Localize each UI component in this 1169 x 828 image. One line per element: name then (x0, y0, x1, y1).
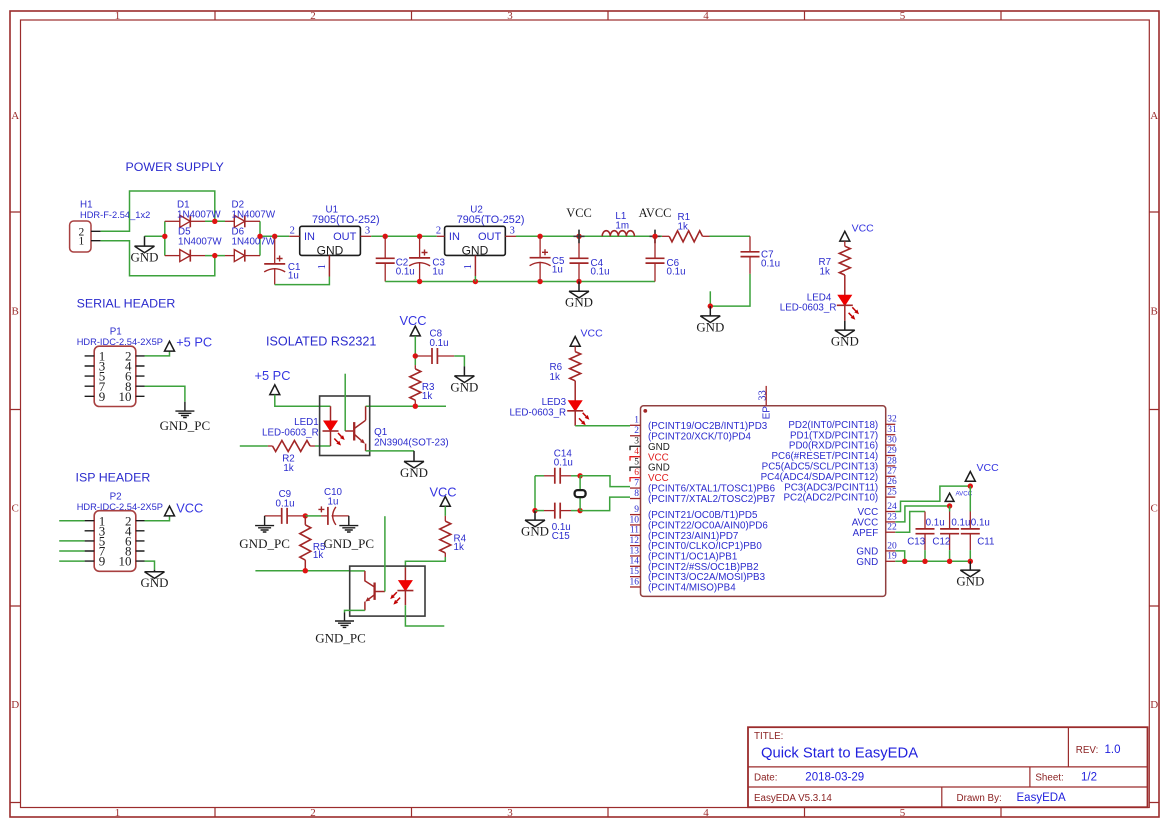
wire ground bus (385, 281, 655, 283)
wire MCU pin20 to bus (895, 551, 904, 561)
svg-text:H1: H1 (80, 200, 93, 211)
svg-text:2N3904(SOT-23): 2N3904(SOT-23) (374, 438, 449, 449)
capacitor C6 (654, 236, 656, 258)
svg-text:A: A (11, 110, 19, 122)
svg-text:GND_PC: GND_PC (239, 536, 290, 551)
svg-text:LED-0603_R: LED-0603_R (262, 427, 319, 438)
junction AVCC/C6 top (652, 234, 657, 239)
svg-text:A: A (1150, 110, 1158, 122)
svg-text:1k: 1k (820, 267, 830, 278)
svg-text:ISOLATED RS2321: ISOLATED RS2321 (266, 334, 376, 348)
svg-text:GND: GND (856, 547, 878, 558)
junction C3 top (417, 234, 422, 239)
ground GND below LED4 (844, 321, 846, 330)
svg-text:C15: C15 (552, 531, 571, 542)
wire R4 to opto2 LED (405, 557, 445, 568)
svg-text:LED1: LED1 (294, 417, 319, 428)
svg-text:(PCINT20/XCK/T0)PD4: (PCINT20/XCK/T0)PD4 (648, 431, 751, 442)
diode D6 (225, 255, 234, 257)
pin 11 of MCU (630, 534, 641, 536)
svg-text:10: 10 (630, 515, 640, 525)
capacitor C9 (265, 515, 282, 517)
pin 2 of MCU (630, 435, 641, 437)
svg-text:GND: GND (956, 575, 984, 589)
wire P2 pin1 (59, 520, 84, 522)
pin 24 of MCU (886, 511, 896, 513)
svg-text:20: 20 (887, 541, 897, 551)
junction bridge right mid (257, 234, 262, 239)
net label VCC on rail (574, 230, 585, 244)
wire bridge mid to GND (145, 235, 165, 237)
junction bridge bottom mid (212, 253, 217, 258)
optocoupler U4 body (350, 566, 425, 616)
pin 2 of U2 (437, 235, 445, 237)
svg-text:6: 6 (634, 468, 639, 478)
capacitor C5 (539, 236, 541, 257)
svg-text:GND: GND (521, 525, 549, 539)
pin 1 of U2 (474, 255, 476, 276)
svg-text:4: 4 (703, 10, 709, 22)
wire bridge out to U1 IN (260, 235, 289, 237)
svg-text:1: 1 (634, 416, 639, 426)
svg-text:11: 11 (630, 526, 639, 536)
svg-text:(PCINT23/AIN1)PD7: (PCINT23/AIN1)PD7 (648, 531, 738, 542)
pin 9 of MCU (630, 514, 641, 516)
svg-text:2: 2 (310, 10, 316, 22)
svg-text:3: 3 (634, 437, 639, 447)
wire R2 left stub (240, 445, 268, 447)
svg-text:1u: 1u (432, 266, 443, 277)
junction C3 bottom (417, 279, 422, 284)
svg-text:29: 29 (887, 446, 897, 456)
svg-text:Quick Start to EasyEDA: Quick Start to EasyEDA (761, 746, 918, 762)
pin 12 of MCU (630, 545, 641, 547)
pin 3 of U2 (505, 235, 516, 237)
svg-text:15: 15 (630, 567, 640, 577)
svg-text:0.1u: 0.1u (971, 517, 990, 528)
diode D2 (225, 220, 234, 222)
svg-text:PD2(INT0/PCINT18): PD2(INT0/PCINT18) (788, 420, 878, 431)
svg-text:(PCINT7/XTAL2/TOSC2)PB7: (PCINT7/XTAL2/TOSC2)PB7 (648, 494, 775, 505)
wire D5 to D6 (205, 255, 225, 257)
power flag VCC above R4 (440, 497, 450, 507)
wire opto1 collector to R3 foot (366, 405, 446, 407)
ground GND_PC below C10 (339, 516, 358, 532)
svg-text:PD0(RXD/PCINT16): PD0(RXD/PCINT16) (789, 441, 878, 452)
svg-text:0.1u: 0.1u (554, 458, 573, 469)
wire C14 to node (571, 475, 580, 477)
junction bus C12 (947, 559, 952, 564)
svg-text:0.1u: 0.1u (926, 517, 945, 528)
connector P2 (94, 511, 136, 572)
wire U1 OUT to C2 (371, 235, 437, 237)
svg-text:C: C (1151, 503, 1158, 515)
wire U2 GND pin to bus (474, 276, 476, 282)
svg-text:EasyEDA V5.3.14: EasyEDA V5.3.14 (754, 793, 832, 804)
svg-text:1N4007W: 1N4007W (178, 237, 222, 248)
svg-text:PC3(ADC3/PCINT11): PC3(ADC3/PCINT11) (784, 482, 878, 493)
svg-text:9: 9 (99, 389, 106, 404)
svg-text:SERIAL HEADER: SERIAL HEADER (77, 297, 176, 311)
svg-text:25: 25 (887, 488, 897, 498)
svg-text:3: 3 (507, 10, 513, 22)
svg-text:GND_PC: GND_PC (160, 418, 211, 433)
svg-text:GND: GND (856, 557, 878, 568)
wire H1 pin2 to bridge top (101, 191, 215, 231)
resistor R2 (273, 441, 311, 452)
svg-text:1u: 1u (328, 497, 339, 508)
svg-text:7905(TO-252): 7905(TO-252) (457, 214, 525, 226)
junction R5 foot (303, 568, 308, 573)
svg-text:1: 1 (115, 807, 121, 819)
capacitor C8 (415, 355, 432, 357)
svg-text:1: 1 (79, 236, 85, 248)
svg-text:7905(TO-252): 7905(TO-252) (312, 214, 380, 226)
svg-text:GND: GND (831, 335, 859, 349)
pin 15 of MCU (630, 576, 641, 578)
wire VCC to R4 (444, 506, 446, 516)
svg-text:Date:: Date: (754, 772, 777, 783)
pin 2 of U1 (289, 235, 299, 237)
svg-text:3: 3 (365, 226, 370, 237)
svg-text:0.1u: 0.1u (591, 267, 610, 278)
capacitor C1 (274, 236, 276, 264)
wire dangling stub into opto1 (344, 374, 346, 431)
svg-text:LED-0603_R: LED-0603_R (509, 407, 566, 418)
svg-text:1k: 1k (454, 542, 464, 553)
resistor R7 (844, 241, 846, 246)
capacitor C13 (924, 512, 926, 529)
svg-text:14: 14 (630, 557, 640, 567)
svg-text:GND: GND (565, 296, 593, 310)
svg-text:5: 5 (900, 807, 906, 819)
svg-text:GND: GND (317, 244, 344, 258)
svg-text:ISP HEADER: ISP HEADER (76, 471, 151, 485)
wire C7 to GND (710, 274, 750, 306)
wire VCC to C8/R3 node (414, 336, 416, 365)
wire +5 PC to LED1 anode (275, 395, 331, 407)
wire crystal left side (534, 476, 536, 511)
svg-text:10: 10 (119, 389, 132, 404)
svg-text:27: 27 (887, 467, 897, 477)
svg-text:7: 7 (634, 478, 639, 488)
pin 4 of MCU (630, 457, 641, 461)
svg-text:30: 30 (887, 436, 897, 446)
svg-text:13: 13 (630, 546, 640, 556)
connector H1 (70, 221, 91, 252)
ground GND at crystal (525, 511, 545, 527)
power flag VCC above R3 (410, 326, 420, 336)
svg-text:4: 4 (634, 447, 639, 457)
regulator U2 body (445, 226, 506, 255)
pin 10 of MCU (630, 524, 641, 526)
svg-text:B: B (12, 306, 19, 318)
svg-text:2: 2 (290, 226, 295, 237)
svg-text:1u: 1u (552, 265, 563, 276)
wire stub above C7 GND (709, 291, 711, 306)
wire dangling stub into opto2 (384, 516, 386, 591)
svg-text:12: 12 (630, 536, 640, 546)
junction C4 top (576, 234, 581, 239)
svg-text:AVCC: AVCC (639, 206, 672, 220)
pin 16 of MCU (630, 586, 641, 588)
LED LED1 inside opto (330, 406, 332, 421)
pin 5 of MCU (630, 467, 641, 471)
svg-text:1.0: 1.0 (1105, 744, 1121, 756)
pin 7 of MCU (630, 487, 641, 489)
pin 14 of MCU (630, 565, 641, 567)
ground GND below opto1 (404, 451, 424, 468)
wire P2 pin9 (59, 560, 84, 562)
LED inside opto2 (404, 568, 406, 581)
svg-text:1u: 1u (288, 270, 299, 281)
capacitor C11 (969, 486, 971, 511)
ground GND below C7 (700, 306, 720, 322)
junction C5 bottom (537, 279, 542, 284)
capacitor C7 (749, 236, 751, 252)
junction bridge top mid (212, 219, 217, 224)
wire XTAL1 to MCU pin7 (580, 476, 630, 487)
pin 6 of MCU (630, 478, 641, 482)
svg-text:1N4007W: 1N4007W (232, 210, 276, 221)
svg-text:1: 1 (115, 10, 121, 22)
wire P1 pin8 to GND_PC (145, 386, 185, 402)
pin 28 of MCU (886, 465, 896, 467)
optocoupler U3 body (320, 396, 370, 456)
pin 33 EP of MCU (765, 386, 767, 406)
wire D1 to D2 (205, 220, 225, 222)
svg-text:VCC: VCC (852, 222, 875, 234)
capacitor C14 (544, 475, 555, 477)
svg-text:HDR-IDC-2.54-2X5P: HDR-IDC-2.54-2X5P (77, 337, 163, 347)
pin 20 of MCU (886, 550, 896, 552)
resistor R1 (669, 231, 702, 242)
svg-text:VCC: VCC (176, 501, 203, 516)
ground GND_PC below C9 (255, 516, 274, 532)
svg-text:GND: GND (131, 251, 159, 265)
pin 22 of MCU (886, 531, 896, 533)
svg-text:LED3: LED3 (542, 397, 567, 408)
LED LED3 (569, 401, 582, 411)
pin 3 of MCU (630, 446, 641, 450)
svg-text:0.1u: 0.1u (276, 498, 295, 509)
capacitor C2 (384, 236, 386, 258)
svg-text:GND: GND (141, 576, 169, 590)
transistor Q1 (345, 430, 353, 432)
crystal Y1 (579, 476, 581, 490)
svg-text:APEF: APEF (853, 528, 879, 539)
junction C2 top (383, 234, 388, 239)
svg-text:VCC: VCC (581, 328, 604, 340)
pin 23 of MCU (886, 521, 896, 523)
svg-text:1m: 1m (615, 221, 629, 232)
svg-text:VCC: VCC (399, 313, 426, 328)
pin 30 of MCU (886, 444, 896, 446)
svg-text:GND_PC: GND_PC (315, 631, 366, 646)
svg-text:Q1: Q1 (374, 427, 387, 438)
svg-text:PC5(ADC5/SCL/PCINT13): PC5(ADC5/SCL/PCINT13) (762, 462, 879, 473)
pin 13 of MCU (630, 555, 641, 557)
ground GND_PC below P1 (175, 402, 194, 418)
capacitor C12 (949, 506, 951, 512)
svg-text:LED-0603_R: LED-0603_R (780, 302, 837, 313)
svg-text:22: 22 (887, 523, 897, 533)
power flag +5 PC at opto (270, 385, 280, 395)
svg-text:C: C (12, 503, 19, 515)
wire opto2 emitter to GND_PC (345, 610, 365, 612)
svg-text:0.1u: 0.1u (761, 259, 780, 270)
svg-text:P1: P1 (110, 326, 122, 337)
wire Q1 emitter to GND (366, 450, 414, 452)
svg-text:(PCINT3/OC2A/MOSI)PB3: (PCINT3/OC2A/MOSI)PB3 (648, 572, 766, 583)
wire bridge right side (259, 221, 261, 255)
svg-text:OUT: OUT (333, 231, 357, 243)
capacitor C4 (578, 236, 580, 258)
svg-text:9: 9 (634, 505, 639, 515)
wire XTAL2 to MCU pin8 (580, 497, 630, 511)
svg-text:2: 2 (634, 426, 639, 436)
ground GND at bridge (135, 236, 155, 252)
pin 19 of MCU (886, 560, 896, 562)
svg-text:TITLE:: TITLE: (754, 731, 783, 742)
svg-text:HDR-F-2.54_1x2: HDR-F-2.54_1x2 (80, 210, 150, 220)
pin 32 of MCU (886, 423, 896, 425)
svg-text:GND: GND (696, 320, 724, 334)
svg-text:1k: 1k (313, 550, 323, 561)
junction VCC right (968, 483, 973, 488)
MCU pin1 marker dot (643, 409, 647, 413)
junction bus C11 (968, 559, 973, 564)
svg-text:1k: 1k (678, 222, 688, 233)
svg-text:PC6(#RESET/PCINT14): PC6(#RESET/PCINT14) (771, 451, 878, 462)
power flag VCC at P2 (165, 506, 175, 516)
svg-text:0.1u: 0.1u (951, 517, 970, 528)
wire MCU pin22 to C13 (895, 512, 925, 533)
svg-text:31: 31 (887, 425, 897, 435)
svg-text:(PCINT4/MISO)PB4: (PCINT4/MISO)PB4 (648, 583, 736, 594)
svg-text:1: 1 (463, 264, 474, 269)
pin 27 of MCU (886, 475, 896, 477)
svg-text:REV:: REV: (1076, 745, 1099, 756)
svg-text:GND_PC: GND_PC (324, 536, 375, 551)
svg-text:19: 19 (887, 552, 897, 562)
wire cap bottom bus (895, 560, 970, 562)
svg-text:VCC: VCC (429, 485, 456, 500)
pin 8 of MCU (630, 498, 641, 500)
svg-text:(PCINT6/XTAL1/TOSC1)PB6: (PCINT6/XTAL1/TOSC1)PB6 (648, 484, 776, 495)
svg-text:PC4(ADC4/SDA/PCINT12): PC4(ADC4/SDA/PCINT12) (761, 472, 879, 483)
junction AVCC right (947, 503, 952, 508)
junction U2 GND bus (473, 279, 478, 284)
junction XTAL bottom (577, 508, 582, 513)
svg-text:D: D (11, 699, 19, 711)
pin 1 of U1 (328, 255, 330, 276)
junction C7 GND (708, 303, 713, 308)
wire U2 OUT rail (516, 235, 662, 237)
svg-text:GND: GND (648, 463, 670, 474)
wire C8 to GND (454, 356, 464, 366)
wire MCU pin24 to VCC (895, 486, 970, 511)
svg-text:9: 9 (99, 554, 106, 569)
svg-text:VCC: VCC (977, 462, 1000, 474)
junction R3 foot (413, 404, 418, 409)
wire crystal left bottom (535, 510, 544, 512)
ground GND below C4 (569, 282, 589, 298)
svg-text:1N4007W: 1N4007W (232, 237, 276, 248)
wire P1 pin2 to +5 PC (145, 351, 170, 356)
svg-text:4: 4 (703, 807, 709, 819)
svg-text:GND: GND (648, 442, 670, 453)
svg-text:Drawn By:: Drawn By: (957, 793, 1002, 804)
wire C1 to U1 GND pin (275, 277, 330, 285)
ground GND below C8 (454, 366, 474, 382)
svg-text:+5 PC: +5 PC (255, 368, 291, 383)
svg-text:GND: GND (450, 380, 478, 394)
resistor R4 (444, 516, 446, 521)
svg-text:1: 1 (317, 264, 328, 269)
svg-text:D: D (1150, 699, 1158, 711)
power flag AVCC right (945, 493, 954, 501)
svg-text:(PCINT22/OC0A/AIN0)PD6: (PCINT22/OC0A/AIN0)PD6 (648, 521, 768, 532)
capacitor C15 (544, 510, 555, 512)
svg-text:8: 8 (634, 489, 639, 499)
svg-text:23: 23 (887, 512, 897, 522)
svg-text:1k: 1k (550, 372, 560, 383)
wire crystal left top (535, 475, 544, 477)
svg-text:C12: C12 (932, 537, 950, 548)
capacitor C10 (327, 507, 329, 525)
svg-text:C13: C13 (907, 537, 926, 548)
svg-text:Sheet:: Sheet: (1035, 772, 1063, 783)
junction C1 tap (272, 234, 277, 239)
svg-text:3: 3 (510, 226, 515, 237)
power flag VCC at R7 (840, 231, 850, 241)
wire H1 pin1 to bridge bottom (101, 241, 215, 276)
title block box (748, 727, 1148, 807)
svg-text:VCC: VCC (648, 473, 669, 484)
svg-text:10: 10 (119, 554, 132, 569)
svg-text:POWER SUPPLY: POWER SUPPLY (126, 160, 224, 174)
svg-text:PD1(TXD/PCINT17): PD1(TXD/PCINT17) (790, 430, 878, 441)
pin 3 of U1 (360, 235, 371, 237)
svg-text:EasyEDA: EasyEDA (1017, 792, 1067, 804)
wire C10 left (305, 515, 321, 517)
junction C5 top (537, 234, 542, 239)
junction bridge left mid (162, 234, 167, 239)
junction C9/C10/R5 (303, 513, 308, 518)
junction GND crystal (532, 508, 537, 513)
svg-text:0.1u: 0.1u (667, 267, 686, 278)
pin 25 of MCU (886, 496, 896, 498)
svg-text:33: 33 (758, 390, 769, 401)
diode D1 (165, 220, 180, 222)
resistor R5 (304, 516, 306, 525)
resistor R3 (410, 369, 421, 400)
svg-text:IN: IN (304, 231, 315, 243)
wire LED3 to MCU pin1 (575, 425, 630, 427)
pin 31 of MCU (886, 434, 896, 436)
svg-text:(PCINT19/OC2B/INT1)PD3: (PCINT19/OC2B/INT1)PD3 (648, 421, 768, 432)
junction C4 bottom (576, 279, 581, 284)
svg-text:1/2: 1/2 (1081, 772, 1097, 784)
junction XTAL top (577, 473, 582, 478)
wire bridge left side (164, 221, 166, 255)
ground GND below bus (969, 561, 971, 570)
svg-text:24: 24 (887, 502, 897, 512)
svg-text:0.1u: 0.1u (396, 266, 415, 277)
svg-text:2: 2 (310, 807, 316, 819)
ground GND below P2 (145, 570, 165, 579)
